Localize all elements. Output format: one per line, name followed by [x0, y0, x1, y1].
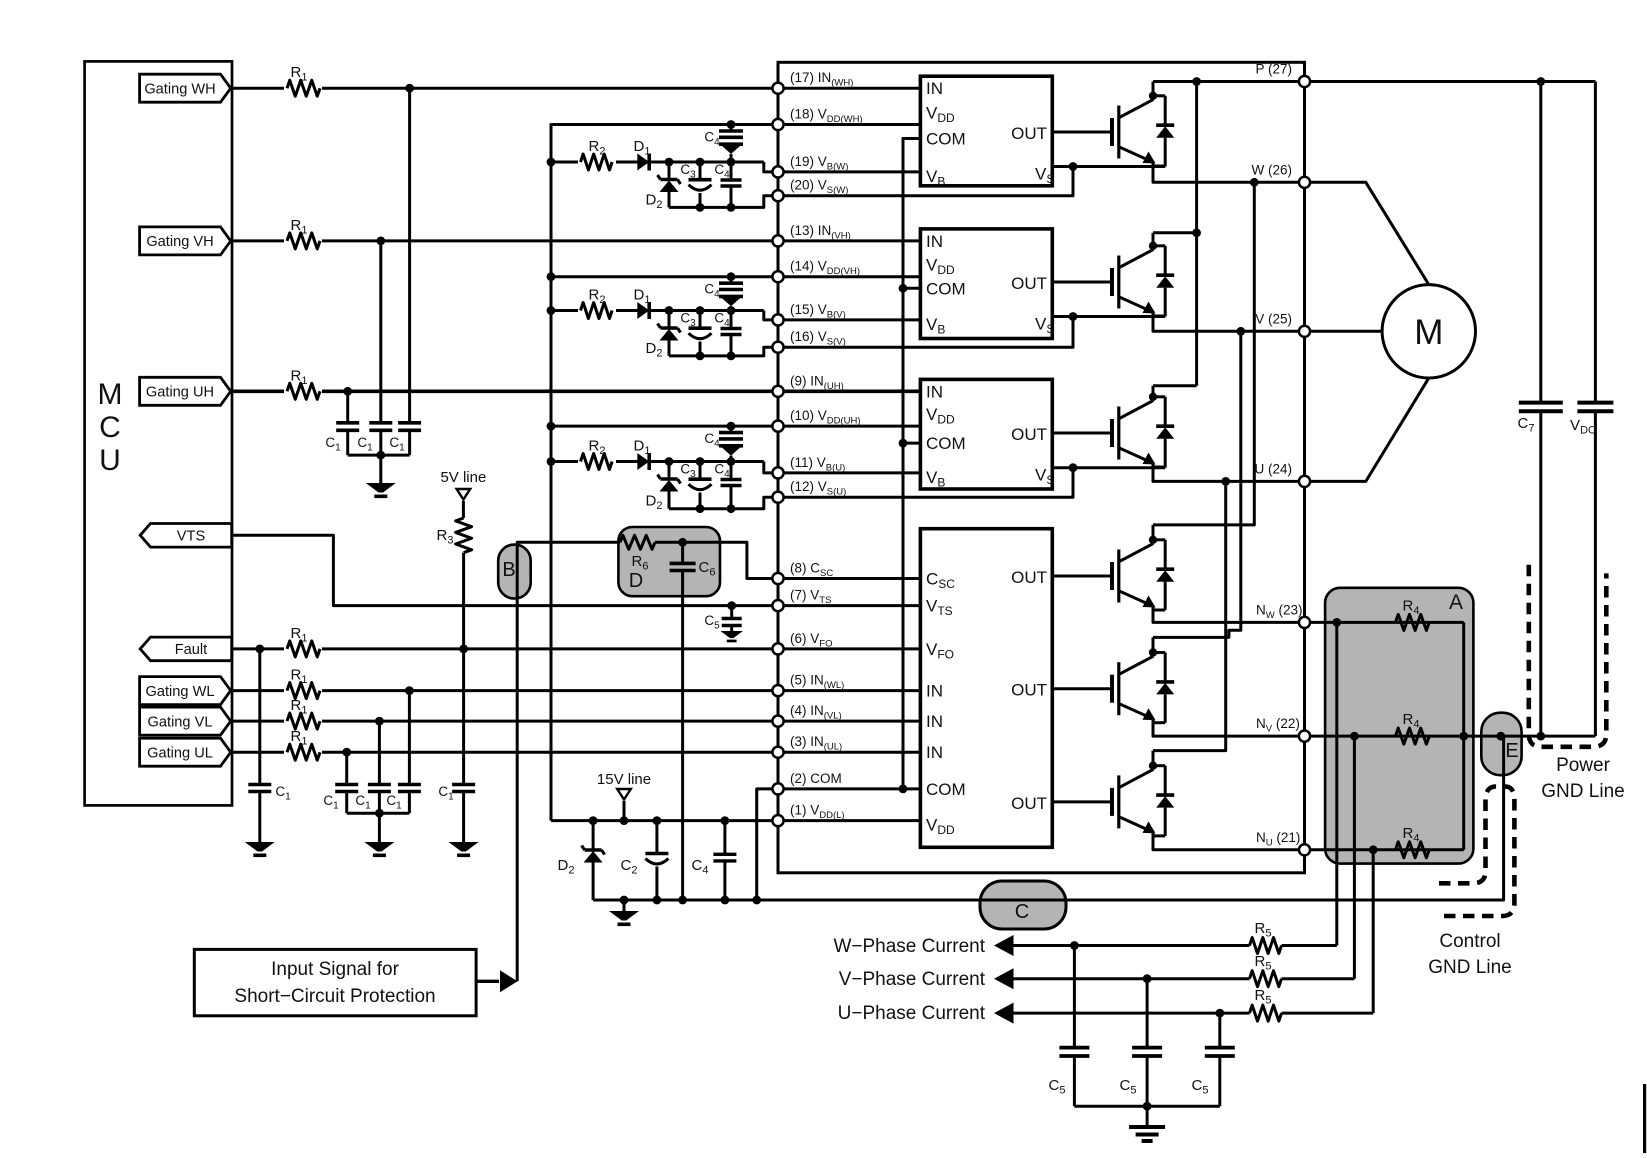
- capacitor C5 (V sense): [1120, 979, 1163, 1106]
- pin (4) IN(VL): [772, 703, 841, 727]
- motor M: [1382, 285, 1475, 378]
- svg-text:Gating UL: Gating UL: [147, 745, 213, 761]
- wire pin 8 to CSC: [778, 577, 920, 580]
- wire Nv sense line: [1305, 732, 1596, 741]
- wire Gating VL to pin 4: [231, 717, 778, 726]
- svg-text:5V line: 5V line: [440, 469, 486, 486]
- pin (19) VB(W): [772, 154, 848, 178]
- svg-text:IN: IN: [926, 79, 943, 98]
- resistor R5 (V): [1250, 953, 1282, 987]
- wire pin 19 to U1 VB: [778, 170, 920, 173]
- capacitor C1 (VL filter): [355, 721, 391, 813]
- wire Q5 collector to P bus: [1153, 384, 1197, 387]
- pin NW (23): [1256, 602, 1310, 628]
- wire C7 branch: [1539, 82, 1542, 737]
- svg-text:E: E: [1505, 740, 1518, 762]
- pin (9) IN(UH): [772, 373, 843, 397]
- resistor R1 (WL): [284, 667, 322, 701]
- wire W phase drop to Q2 collector: [1153, 182, 1254, 525]
- resistor R4 (Nv): [1395, 711, 1429, 744]
- wire pin 5 to IN: [778, 689, 920, 692]
- svg-text:A: A: [1449, 591, 1463, 614]
- IGBT Q6 (UL) with freewheel diode: [1112, 751, 1174, 836]
- ground (C1 bank lower): [364, 842, 394, 857]
- wire pin 4 to IN: [778, 720, 920, 723]
- wire pin 9 to U3 IN: [778, 389, 920, 393]
- pin (18) VDD(WH): [772, 107, 862, 131]
- svg-text:Fault: Fault: [175, 642, 207, 658]
- driver IC U1 (WH): [920, 76, 1054, 188]
- svg-text:Power: Power: [1556, 755, 1611, 776]
- capacitor C2: [621, 821, 669, 900]
- wire C1 bank bus: [348, 451, 410, 483]
- capacitor C6: [670, 542, 716, 900]
- wire Fault net: [231, 645, 778, 654]
- pin (17) IN(WH): [772, 70, 853, 94]
- ground (C1 5V): [449, 842, 479, 857]
- resistor R1 (UH): [284, 367, 322, 401]
- capacitor C5 (U sense): [1192, 1013, 1235, 1106]
- wire pin 14 to U2 VDD: [778, 275, 920, 278]
- wire pin 13 to U2 IN: [778, 239, 920, 242]
- resistor R6: [620, 535, 655, 572]
- IGBT Q2 (WL) with freewheel diode: [1112, 525, 1174, 610]
- svg-text:Gating VH: Gating VH: [146, 234, 213, 250]
- capacitor C4 (VDD decoupling with arrow): [551, 158, 778, 172]
- wire Q3 emitter / VS(V): [778, 312, 1165, 347]
- wire Q6 gate: [1052, 800, 1112, 803]
- wire Nw sense line: [1305, 618, 1464, 627]
- resistor R1 (WH): [284, 64, 322, 98]
- node VTS tag: [140, 524, 232, 548]
- pin NV (22): [1256, 716, 1310, 742]
- resistor R5 (U): [1250, 987, 1282, 1021]
- node W-phase current arrow: [833, 935, 1013, 957]
- MCU block: [85, 61, 232, 805]
- wire 15V rail to pin 1: [551, 816, 778, 825]
- wire pin 6 to VFO: [778, 647, 920, 650]
- svg-text:IN: IN: [926, 382, 943, 401]
- wire pin 10 to U3 VDD: [778, 425, 920, 428]
- wire Nw sense drop: [1335, 622, 1338, 945]
- resistor R5 (W): [1250, 920, 1282, 954]
- IGBT Q5 (UH) with freewheel diode: [1112, 386, 1174, 468]
- pin NU (21): [1256, 830, 1310, 856]
- wire input signal arrow: [476, 970, 517, 992]
- wire Nu sense drop: [1372, 850, 1375, 1013]
- svg-text:Gating WL: Gating WL: [146, 684, 215, 700]
- capacitor C1 (5V rail): [438, 649, 475, 842]
- wire pin 14 VDD(VH): [551, 272, 778, 281]
- svg-text:IN: IN: [926, 682, 943, 701]
- pin (16) VS(V): [772, 329, 845, 353]
- wire Nu sense line: [1305, 845, 1464, 854]
- pin (7) VTS: [772, 588, 831, 612]
- svg-text:IN: IN: [926, 232, 943, 251]
- svg-text:W (26): W (26): [1252, 162, 1293, 177]
- ground (C5 VTS): [720, 631, 743, 642]
- svg-text:V−Phase Current: V−Phase Current: [839, 969, 986, 990]
- svg-text:Gating UH: Gating UH: [146, 385, 214, 401]
- grey mark B: [498, 545, 531, 599]
- svg-text:GND Line: GND Line: [1428, 957, 1511, 978]
- wire Q2 emitter to Nw: [1153, 610, 1305, 622]
- svg-text:IN: IN: [926, 743, 943, 762]
- resistor R3: [437, 518, 472, 553]
- wire W to motor: [1305, 182, 1429, 284]
- svg-text:OUT: OUT: [1011, 274, 1047, 293]
- wire Q4 gate: [1052, 687, 1112, 690]
- pin (1) VDD(L): [772, 803, 844, 827]
- ground (C1 Fault): [245, 842, 275, 857]
- resistor R1 (VL): [284, 697, 322, 731]
- svg-text:D: D: [629, 570, 643, 592]
- pin (2) COM: [772, 771, 841, 795]
- svg-text:COM: COM: [926, 279, 966, 298]
- wire Gating WH to pin 17: [231, 84, 778, 93]
- pin (10) VDD(UH): [772, 408, 860, 432]
- capacitor C1 (Fault filter): [248, 649, 291, 842]
- capacitor C1 (WH filter): [389, 88, 421, 455]
- pin W (26): [1252, 162, 1311, 188]
- driver IC U4 (low side): [920, 529, 1052, 848]
- capacitor C5 (VTS filter): [704, 606, 741, 632]
- wire U-phase current line: [1013, 1009, 1373, 1018]
- svg-text:Control: Control: [1439, 931, 1500, 952]
- svg-text:C: C: [99, 411, 121, 444]
- capacitor C5 (W sense): [1049, 946, 1090, 1107]
- wire VDC branch: [1594, 82, 1597, 737]
- pin (20) VS(W): [772, 178, 848, 202]
- IGBT Q1 (WH) with freewheel diode: [1112, 82, 1174, 167]
- power GND line (dashed): [1529, 565, 1625, 802]
- wire Q3 collector to P bus: [1153, 228, 1201, 237]
- svg-text:OUT: OUT: [1011, 425, 1047, 444]
- wire Q5 gate: [1052, 432, 1112, 435]
- svg-text:U (24): U (24): [1254, 461, 1292, 476]
- resistor R1 (VH): [284, 217, 322, 251]
- wire U phase node: [1153, 468, 1305, 486]
- driver IC U3 (UH): [920, 379, 1054, 489]
- pin (11) VB(U): [772, 455, 845, 479]
- wire pin 3 to IN: [778, 751, 920, 754]
- wire Nv sense drop: [1353, 736, 1356, 979]
- svg-text:Gating VL: Gating VL: [148, 714, 213, 730]
- wire pin 1 VDD(L): [778, 819, 920, 822]
- resistor R4 (Nu): [1395, 825, 1429, 858]
- wire V to motor: [1305, 330, 1383, 333]
- svg-text:VTS: VTS: [177, 529, 206, 545]
- capacitor C4 (VDD decoupling with arrow): [551, 457, 778, 473]
- grey zone A (shunt resistor area): [1325, 588, 1473, 864]
- node 5V line: [440, 469, 486, 518]
- wire V phase drop to Q4 collector: [1153, 331, 1241, 637]
- ground (C1 bank upper): [366, 483, 396, 498]
- wire Gating UL to pin 3: [231, 748, 778, 757]
- pin (13) IN(VH): [772, 223, 850, 247]
- wire pin 10 VDD(UH): [551, 422, 778, 431]
- wire control ground rail: [593, 736, 1504, 904]
- node Gating WL tag: [140, 677, 231, 705]
- resistor R1 (UL): [284, 728, 322, 762]
- svg-text:C: C: [1015, 901, 1029, 923]
- wire pin 15 to U2 VB: [778, 318, 920, 321]
- pin (3) IN(UL): [772, 734, 842, 758]
- capacitor C4 (15V rail): [692, 821, 737, 900]
- input signal block (short-circuit protection): [194, 949, 476, 1015]
- svg-text:U−Phase Current: U−Phase Current: [838, 1003, 986, 1024]
- capacitor C1 (WL filter): [386, 691, 421, 814]
- wire Gating VH to pin 13: [231, 237, 778, 246]
- wire Gating UH to pin 9: [231, 387, 778, 396]
- wire U phase drop to Q6 collector: [1153, 481, 1226, 750]
- wire COM bus: [899, 139, 921, 794]
- node Gating VL tag: [140, 707, 231, 735]
- svg-text:OUT: OUT: [1011, 124, 1047, 143]
- wire pin 2 to COM: [778, 787, 920, 790]
- wire Q5 emitter / VS(U): [778, 463, 1165, 497]
- node V-phase current arrow: [839, 968, 1014, 990]
- wire short-circuit protection net (B to pin 8): [517, 538, 778, 981]
- wire pin 7 to VTS: [778, 604, 920, 607]
- pin U (24): [1254, 461, 1310, 487]
- svg-text:M: M: [1414, 313, 1443, 352]
- IPM module outline: [778, 62, 1305, 873]
- svg-text:OUT: OUT: [1011, 681, 1047, 700]
- wire pin 17 to U1 IN: [778, 87, 920, 90]
- wire R3 to Fault line: [462, 553, 465, 649]
- node 15V line: [597, 771, 651, 821]
- wire P rail: [1153, 77, 1595, 86]
- svg-text:COM: COM: [926, 434, 966, 453]
- node Gating UL tag: [140, 738, 231, 766]
- node C4 tap on VDD(WH) line: [727, 120, 736, 129]
- driver IC U2 (VH): [920, 229, 1054, 339]
- wire Q1 emitter / VS(W): [778, 162, 1165, 196]
- pin (12) VS(U): [772, 479, 846, 503]
- wire Q3 gate: [1052, 281, 1112, 284]
- grey zone D (RC filter R6 C6): [618, 527, 720, 596]
- node Fault tag: [140, 637, 232, 661]
- pin (5) IN(WL): [772, 673, 844, 697]
- wire W phase node: [1153, 167, 1305, 187]
- grey mark C: [980, 881, 1066, 929]
- wire W-phase current line: [1013, 941, 1337, 950]
- svg-text:IN: IN: [926, 712, 943, 731]
- svg-text:V (25): V (25): [1255, 311, 1292, 326]
- node Gating VH tag: [140, 227, 231, 255]
- node U-phase current arrow: [838, 1003, 1014, 1024]
- svg-text:GND Line: GND Line: [1541, 781, 1624, 802]
- svg-text:(2) COM: (2) COM: [790, 771, 842, 786]
- wire pin 11 to U3 VB: [778, 471, 920, 474]
- svg-text:Input Signal for: Input Signal for: [271, 959, 399, 980]
- wire pin 18 to U1 VDD: [778, 123, 920, 126]
- svg-text:U: U: [99, 444, 121, 477]
- ground (C5 bank, earth symbol): [1129, 1127, 1165, 1141]
- pin P (27): [1255, 62, 1310, 88]
- svg-text:COM: COM: [926, 130, 966, 149]
- svg-text:OUT: OUT: [1011, 568, 1047, 587]
- capacitor C4 (VDD decoupling with arrow): [551, 306, 778, 320]
- IGBT Q4 (VL) with freewheel diode: [1112, 637, 1174, 722]
- capacitor C1 (VH filter): [357, 241, 392, 455]
- zener diode D2 (15V clamp): [558, 821, 605, 900]
- wire V-phase current line: [1013, 974, 1354, 983]
- pin (6) VFO: [772, 631, 832, 655]
- wire Q4 emitter to Nv: [1153, 723, 1305, 736]
- resistor R4 (Nw): [1395, 597, 1429, 630]
- capacitor VDC (DC bus): [1570, 403, 1613, 437]
- IGBT Q3 (VH) with freewheel diode: [1112, 233, 1174, 317]
- svg-text:P (27): P (27): [1255, 62, 1292, 77]
- wire Q1 gate: [1052, 131, 1112, 134]
- node Gating UH tag: [140, 377, 231, 405]
- capacitor C1 (UH filter): [325, 391, 359, 455]
- resistor R1 (Fault): [284, 625, 322, 659]
- svg-text:Short−Circuit Protection: Short−Circuit Protection: [234, 986, 435, 1007]
- pin (15) VB(V): [772, 302, 845, 326]
- pin (14) VDD(VH): [772, 259, 860, 283]
- capacitor C7: [1518, 403, 1563, 435]
- wire C5 bank bus: [1074, 1102, 1219, 1127]
- svg-text:W−Phase Current: W−Phase Current: [833, 936, 985, 957]
- wire U to motor: [1305, 378, 1429, 481]
- wire VTS net: [232, 535, 778, 610]
- wire VDD bus (vertical): [547, 125, 778, 821]
- wire Gating WL to pin 5: [231, 686, 778, 695]
- svg-text:M: M: [98, 378, 123, 411]
- wire R4 common bus: [1462, 622, 1465, 849]
- svg-text:Gating WH: Gating WH: [144, 81, 215, 97]
- wire lower C1 bank bus: [347, 809, 410, 842]
- wire V phase node: [1153, 317, 1305, 336]
- page edge mark: [1643, 1084, 1646, 1153]
- wire Q2 gate: [1052, 575, 1112, 578]
- svg-text:COM: COM: [926, 780, 966, 799]
- capacitor C1 (UL filter): [323, 752, 358, 813]
- control GND line (dashed): [1428, 787, 1514, 979]
- pin V (25): [1255, 311, 1310, 337]
- svg-text:15V line: 15V line: [597, 771, 651, 788]
- node Gating WH tag: [140, 74, 231, 102]
- pin (8) CSC: [772, 561, 833, 585]
- wire pin 2 COM to ground rail: [757, 789, 778, 900]
- grey mark E: [1481, 713, 1521, 776]
- wire P bus vertical: [1192, 77, 1201, 386]
- svg-text:OUT: OUT: [1011, 794, 1047, 813]
- ground (control rail): [609, 900, 639, 926]
- wire Q6 emitter to Nu: [1153, 836, 1305, 850]
- svg-text:B: B: [502, 559, 515, 581]
